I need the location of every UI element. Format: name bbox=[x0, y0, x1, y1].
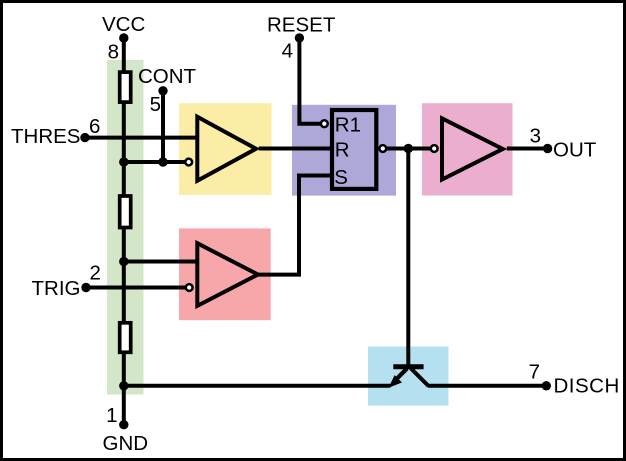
junction divider node A bbox=[119, 157, 128, 166]
svg-text:GND: GND bbox=[103, 432, 149, 455]
node THRES pin 6 bbox=[80, 133, 89, 142]
junction output to transistor bbox=[404, 144, 413, 153]
svg-text:4: 4 bbox=[282, 40, 293, 63]
svg-text:DISCH: DISCH bbox=[554, 375, 620, 398]
op-amp comparator 2 (trigger) bbox=[197, 243, 258, 306]
node TRIG pin 2 bbox=[81, 283, 90, 292]
output buffer highlight (pink box) bbox=[422, 103, 513, 195]
voltage divider highlight (green strip) bbox=[107, 60, 144, 395]
bubble flip-flop output bbox=[379, 145, 386, 152]
flip-flop highlight (purple box) bbox=[292, 105, 396, 196]
svg-text:R: R bbox=[335, 139, 350, 162]
wire comparator1 output to flip-flop R bbox=[259, 147, 332, 151]
op-amp comparator 1 (threshold) bbox=[197, 117, 256, 181]
svg-text:2: 2 bbox=[90, 262, 101, 285]
svg-text:3: 3 bbox=[530, 125, 541, 148]
node OUT pin 3 bbox=[543, 144, 552, 153]
resistor R top bbox=[120, 72, 131, 102]
discharge transistor highlight (blue box) bbox=[368, 347, 449, 406]
svg-text:1: 1 bbox=[106, 404, 117, 427]
svg-text:THRES: THRES bbox=[11, 125, 80, 148]
threshold comparator highlight (yellow box) bbox=[179, 103, 272, 195]
wire THRES to comparator + bbox=[85, 136, 199, 140]
svg-text:OUT: OUT bbox=[553, 139, 597, 162]
wire buffer output to OUT bbox=[507, 147, 548, 151]
transistor Q1 collector line bbox=[411, 368, 429, 386]
wire CONT vertical bbox=[161, 91, 165, 162]
resistor R middle bbox=[120, 196, 131, 228]
svg-text:8: 8 bbox=[108, 41, 119, 64]
transistor Q1 emitter arrow bbox=[389, 375, 403, 388]
svg-text:TRIG: TRIG bbox=[32, 277, 81, 300]
junction bottom rail bbox=[119, 381, 128, 390]
svg-text:S: S bbox=[334, 166, 348, 189]
bubble comparator1 inverting input bbox=[185, 159, 192, 166]
node RESET pin 4 bbox=[295, 33, 304, 42]
junction divider node B bbox=[119, 257, 128, 266]
junction CONT node bbox=[158, 157, 167, 166]
wire TRIG to comparator2 - bubble bbox=[86, 286, 186, 290]
svg-text:CONT: CONT bbox=[138, 65, 197, 88]
wire RESET vertical and to R1 bubble bbox=[299, 38, 321, 124]
svg-text:6: 6 bbox=[89, 115, 100, 138]
node DISCH pin 7 bbox=[542, 381, 551, 390]
bubble comparator2 inverting input bbox=[186, 284, 193, 291]
node VCC pin 8 bbox=[119, 33, 128, 42]
node CONT pin 5 bbox=[158, 86, 167, 95]
wire divider node A to comparator - bubble bbox=[124, 160, 186, 164]
bubble buffer input bbox=[431, 145, 438, 152]
svg-text:7: 7 bbox=[529, 361, 540, 384]
node GND pin 1 bbox=[119, 420, 128, 429]
resistor R bottom bbox=[120, 323, 131, 353]
wire flip-flop output to buffer input bbox=[386, 147, 431, 151]
bubble flip-flop R1 input bbox=[321, 120, 328, 127]
transistor Q1 base bar bbox=[393, 364, 423, 369]
svg-text:VCC: VCC bbox=[102, 13, 145, 36]
wire bottom rail to transistor emitter bbox=[124, 384, 391, 388]
inverter buffer U3 bbox=[442, 118, 503, 179]
wire VCC rail vertical bbox=[122, 38, 126, 425]
trigger comparator highlight (red box) bbox=[179, 228, 271, 320]
svg-text:5: 5 bbox=[150, 93, 161, 116]
wire junction down to transistor base bbox=[406, 149, 410, 365]
wire divider node B to comparator2 + bbox=[124, 260, 199, 264]
svg-text:R1: R1 bbox=[335, 114, 361, 137]
transistor Q1 emitter line bbox=[397, 369, 407, 379]
svg-text:RESET: RESET bbox=[267, 14, 336, 37]
wire transistor collector to DISCH bbox=[428, 384, 547, 388]
flip-flop box bbox=[332, 110, 376, 189]
wire comparator2 output up to flip-flop S bbox=[258, 176, 332, 275]
